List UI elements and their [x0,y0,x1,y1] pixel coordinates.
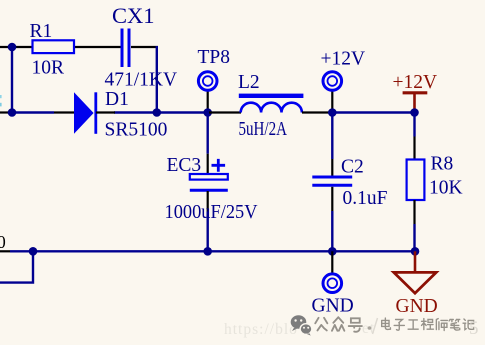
svg-text:1000uF/25V: 1000uF/25V [165,202,258,223]
watermark url text [224,320,375,338]
svg-text:L2: L2 [238,72,260,93]
zi [394,320,404,331]
dian [382,318,391,329]
svg-text:C2: C2 [341,157,364,178]
svg-text:5uH/2A: 5uH/2A [239,119,288,140]
junction [328,247,337,256]
junction [203,247,212,256]
junction [328,108,337,117]
junction [8,43,17,52]
watermark text dianzi gongchengshi biji [382,318,474,330]
svg-text:TP8: TP8 [198,47,231,68]
diode D1 [54,89,167,141]
watermark text gongzhonghao [315,317,362,331]
pin number 0 [0,232,6,252]
svg-text:0.1uF: 0.1uF [343,188,388,209]
power +12V red [393,72,438,113]
inductor L2 [209,72,332,140]
wire [0,46,121,48]
bi [449,320,460,331]
svg-text:+12V: +12V [393,72,438,93]
wire [10,250,415,252]
svg-text:CX1: CX1 [112,3,155,28]
wire [331,113,333,160]
wire [0,111,11,113]
resistor R1 [30,21,75,79]
capacitor C2 [312,157,387,212]
svg-text:471/1KV: 471/1KV [105,70,178,91]
cheng [422,319,434,330]
capacitor CX1 [105,3,178,91]
svg-text:+12V: +12V [321,49,366,70]
junction [411,247,420,256]
resistor R8 [407,137,463,225]
wire [206,212,208,252]
wire [156,46,158,113]
svg-text:R1: R1 [30,21,53,42]
power port +12V [321,49,366,113]
shi [436,319,447,331]
watermark wechat icon [291,315,312,335]
watermark dot slash [368,318,378,334]
gong [315,318,327,331]
svg-text:5: 5 [469,318,479,339]
zhong [332,317,344,331]
wire [11,111,54,113]
svg-text:10R: 10R [32,58,65,79]
svg-text:0: 0 [0,232,6,252]
svg-text:D1: D1 [105,89,129,110]
power port GND [312,251,354,316]
capacitor EC3 [165,154,258,223]
junction [153,108,162,117]
junction [29,247,38,256]
svg-text:EC3: EC3 [167,155,202,176]
svg-text:SR5100: SR5100 [105,120,168,141]
watermark trailing 5 [469,318,479,339]
svg-text:https://blo: https://blo [224,321,298,338]
power GND red [394,251,438,317]
wire [413,113,415,137]
wire [206,113,208,154]
wire [114,111,209,113]
svg-text:10K: 10K [429,178,463,199]
svg-text:GND: GND [312,296,354,317]
wire [331,211,333,251]
net label cut off [0,95,2,106]
wire [413,224,415,251]
wire [131,46,158,48]
junction [8,108,17,117]
junction [410,108,419,117]
wire [332,111,414,113]
test point TP8 [198,47,231,113]
svg-text:R8: R8 [431,154,454,175]
ji [463,319,474,330]
hao [349,318,362,331]
wire [11,47,13,113]
gong2 [408,320,418,329]
junction [203,108,212,117]
wire [0,251,33,282]
wire [0,250,10,252]
svg-text:GND: GND [396,296,438,317]
